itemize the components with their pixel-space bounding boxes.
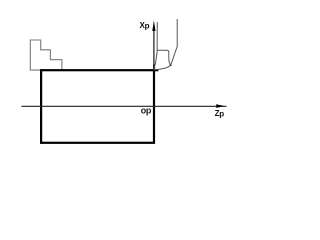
Xp arrowhead xyxy=(152,20,155,31)
Xp axis line xyxy=(153,27,155,71)
centerline (Z axis) xyxy=(21,105,226,107)
tool tip dark bar at corner xyxy=(153,64,155,71)
svg-text:op: op xyxy=(141,106,152,116)
Zp arrowhead xyxy=(216,104,225,108)
workpiece rectangle xyxy=(41,70,154,143)
tool insert xyxy=(157,50,171,65)
junction dot at tool nose corner xyxy=(170,64,172,66)
chuck (stepped jaw profile) xyxy=(30,40,62,70)
svg-text:Xp: Xp xyxy=(140,21,150,31)
workpiece top edge stub at tool contact xyxy=(154,69,158,71)
svg-text:Zp: Zp xyxy=(215,109,225,119)
tool body outline xyxy=(154,19,177,70)
